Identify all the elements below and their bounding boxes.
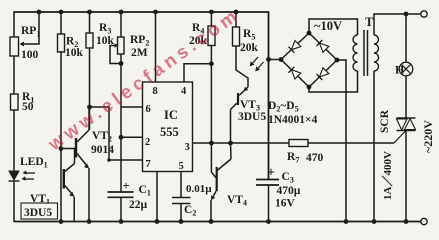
svg-text:~10V: ~10V [314, 19, 342, 33]
capacitor C3 470u [256, 166, 279, 223]
junction VT1 emitter / ground [59, 219, 64, 224]
svg-text:3DU5: 3DU5 [24, 207, 52, 219]
value 20k of R5 [240, 42, 259, 54]
label H [395, 63, 405, 77]
junction VT2 emitter / ground [87, 219, 92, 224]
diode D3 (top-right) [316, 40, 328, 52]
label 1N4001 x4 [268, 114, 318, 126]
junction R4 / top rail [209, 10, 214, 15]
wire pin6 to pin2 [120, 107, 122, 137]
wire lamp to triac [405, 76, 407, 118]
junction pin1 / ground [155, 219, 160, 224]
svg-text:100: 100 [21, 49, 39, 61]
wire 555 pin 1 to ground [156, 172, 158, 223]
junction VT3 emitter / pin3 line [228, 141, 233, 146]
bridge rectifier D2~D5 frame [279, 31, 340, 90]
transformer T secondary winding [353, 35, 358, 71]
wire 555 pin 5 stub [180, 172, 182, 198]
pin 2 label [145, 137, 150, 148]
watermark www.elecfans.com [43, 3, 244, 155]
svg-text:2: 2 [145, 137, 150, 148]
label VT2 [92, 130, 112, 144]
label 1A/400V rotated [381, 151, 394, 200]
wire bridge top to transformer secondary [309, 19, 358, 35]
transistor VT4 [211, 143, 231, 222]
wire R4 node down to pin3 line [210, 64, 212, 143]
pin 7 label [146, 159, 151, 170]
value 22u of C1 [129, 199, 148, 211]
svg-text:555: 555 [160, 125, 179, 139]
junction pin7 corner [107, 158, 111, 162]
label T [365, 15, 374, 29]
resistor R1 [11, 91, 35, 110]
svg-text:5: 5 [179, 161, 184, 172]
svg-text:8: 8 [153, 86, 158, 97]
wire RP1 to R1 [13, 56, 15, 94]
svg-text:IC: IC [164, 108, 178, 122]
label 9014 of VT2 [91, 144, 114, 156]
svg-text:4: 4 [181, 86, 187, 97]
value 50 of R1 [22, 101, 34, 113]
label D2~D5 [268, 100, 299, 114]
svg-text:1A／400V: 1A／400V [381, 151, 394, 200]
wire top supply rail [14, 11, 269, 13]
svg-text:2M: 2M [131, 47, 148, 59]
junction triac / ground [404, 219, 409, 224]
junction RP1 wiper / top rail [37, 10, 42, 15]
junction primary / ground [372, 219, 377, 224]
svg-text:1N4001×4: 1N4001×4 [268, 114, 318, 126]
diode D4 (bottom-left) [288, 67, 300, 79]
svg-text:3DU5: 3DU5 [238, 111, 266, 123]
triac SCR [394, 118, 416, 222]
capacitor C1 22u [108, 179, 134, 222]
junction lamp branch / mains top [404, 12, 409, 17]
wire pin2 node to C1 [120, 137, 122, 192]
svg-text:H: H [395, 63, 405, 77]
svg-text:D2~D5: D2~D5 [268, 100, 299, 114]
label IC [164, 108, 178, 122]
pin 4 label [181, 86, 187, 97]
svg-text:3: 3 [185, 142, 190, 153]
value 470 of R7 [306, 152, 324, 164]
phototransistor VT1 [61, 149, 75, 223]
svg-text:50: 50 [22, 101, 34, 113]
wire 555 pin 2 stub [121, 136, 143, 138]
svg-text:+: + [267, 166, 275, 181]
value 16V of C3 [275, 198, 296, 210]
junction supply / bridge plus [266, 57, 271, 62]
LED LED1 [9, 170, 36, 181]
wire primary top to mains [374, 14, 421, 35]
svg-text:16V: 16V [275, 198, 296, 210]
wire R3 to VT2 collector [89, 48, 91, 130]
svg-text:SCR: SCR [379, 109, 391, 133]
resistor R3 [86, 12, 111, 48]
potentiometer RP1 [10, 12, 40, 56]
junction C2 / ground [179, 219, 184, 224]
resistor R2 [58, 12, 79, 52]
svg-text:LED1: LED1 [20, 156, 48, 170]
wire R7 to triac gate [308, 142, 394, 144]
label 3DU5 of VT3 [238, 111, 266, 123]
resistor R4 [192, 12, 215, 46]
svg-text:470: 470 [306, 152, 324, 164]
diode D5 (bottom-right) [316, 68, 328, 80]
junction R5 / top rail [234, 10, 239, 15]
wire R4 to pin4 tee [210, 46, 212, 64]
label box 3DU5 of VT1 [21, 203, 58, 219]
svg-text:6: 6 [146, 104, 151, 115]
svg-text:7: 7 [146, 159, 151, 170]
wire to 555 pin 4 [184, 64, 211, 82]
pin 5 label [179, 161, 184, 172]
wire 555 pin 3 output [193, 142, 290, 144]
wire bridge minus to ground [337, 60, 346, 222]
wire bottom ground rail [14, 221, 421, 223]
junction RP2 / top rail [119, 10, 124, 15]
light arrows into VT3 [250, 57, 264, 71]
svg-text:~220V: ~220V [421, 120, 435, 153]
svg-text:+: + [123, 179, 130, 193]
transformer core [364, 30, 368, 76]
wire to bridge left vertex [269, 59, 282, 61]
junction C3 / ground [266, 219, 271, 224]
junction bridge minus / ground [344, 219, 349, 224]
wire node to 555 pin 7 [90, 107, 143, 160]
value 100 of RP1 [21, 49, 39, 61]
label ~220V rotated [421, 120, 435, 153]
wire supply drop to bridge and C3 [268, 11, 270, 179]
pin 8 label [153, 86, 158, 97]
wire bridge bottom to secondary bottom [309, 71, 358, 92]
svg-text:T: T [365, 15, 374, 29]
label VT4 [227, 194, 247, 208]
wire primary bottom to ground rail [373, 71, 375, 222]
phototransistor VT3 3DU5 [231, 87, 249, 143]
value 10k of R3 [96, 35, 115, 47]
wire R1 to LED [13, 110, 15, 171]
capacitor C2 0.01u [172, 198, 191, 223]
svg-text:470µ: 470µ [277, 185, 301, 197]
label VT3 [240, 99, 260, 113]
wire mains to lamp [405, 14, 407, 63]
wire 555 pin 8 to top rail [155, 12, 157, 82]
transformer T primary winding [374, 35, 379, 71]
value 10k of R2 [65, 47, 84, 59]
potentiometer RP2 [110, 12, 149, 64]
label C3 [282, 171, 294, 185]
resistor R7 [287, 140, 308, 165]
junction R3 / VT2 collector / pin7 link [87, 105, 92, 110]
label LED1 [20, 156, 48, 170]
label VT1 [30, 193, 50, 207]
wire R5 to VT3 [236, 46, 248, 87]
op-amp U1 IC 555 box [143, 82, 193, 172]
junction R3 / top rail [87, 10, 92, 15]
wire R2 to VT2 base [60, 51, 62, 149]
pin 3 label [185, 142, 190, 153]
node top-left corner [13, 11, 15, 37]
svg-text:0.01µ: 0.01µ [186, 183, 212, 195]
terminal mains bottom [421, 218, 427, 224]
value 470u of C3 [277, 185, 301, 197]
transistor VT2 9014 [61, 107, 89, 222]
junction RP2 wiper bottom [119, 61, 124, 66]
label ~10V [314, 19, 342, 33]
junction pins 2-6 tie [119, 135, 124, 140]
junction VT2 base tap [59, 146, 64, 151]
label C1 [139, 184, 151, 198]
label C2 [184, 204, 196, 218]
pin 6 label [146, 104, 151, 115]
label 555 [160, 125, 179, 139]
junction pin8 / top rail [153, 10, 158, 15]
junction R4 branch / pin3 line [209, 141, 214, 146]
lamp H [399, 62, 413, 76]
value 20k of R4 [189, 35, 208, 47]
value 2M of RP2 [131, 47, 148, 59]
junction C1 / ground [119, 219, 124, 224]
junction R4 / pin 4 [209, 61, 214, 66]
junction VT4 emitter / ground [209, 219, 214, 224]
wire RP2 to pin 6 [120, 54, 122, 107]
wire LED to ground rail [13, 181, 15, 222]
diode D2 (top-left) [288, 41, 300, 53]
svg-text:20k: 20k [240, 42, 259, 54]
terminal mains top [421, 11, 427, 17]
wire 555 pin 6 stub [121, 106, 143, 108]
value 0.01u of C2 [186, 183, 212, 195]
resistor R5 [233, 12, 256, 46]
label SCR rotated [379, 109, 391, 133]
junction R2 / top rail [59, 10, 64, 15]
svg-text:10k: 10k [65, 47, 84, 59]
svg-text:9014: 9014 [91, 144, 114, 156]
svg-text:22µ: 22µ [129, 199, 148, 211]
